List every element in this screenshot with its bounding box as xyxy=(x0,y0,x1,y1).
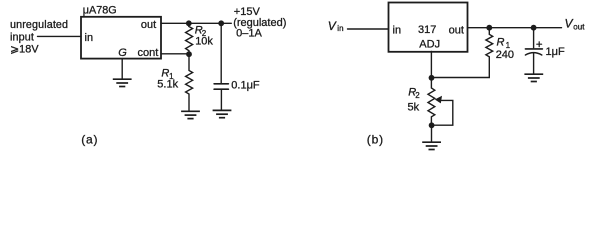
svg-text:cont: cont xyxy=(138,47,159,59)
svg-text:ADJ: ADJ xyxy=(419,39,440,51)
svg-text:in: in xyxy=(85,32,94,44)
svg-text:G: G xyxy=(118,47,127,59)
svg-text:out: out xyxy=(573,23,585,32)
svg-text:2: 2 xyxy=(415,91,420,100)
svg-text:⩾18V: ⩾18V xyxy=(10,44,39,56)
svg-text:out: out xyxy=(141,19,156,31)
svg-text:0–1A: 0–1A xyxy=(236,28,262,40)
svg-text:unregulated: unregulated xyxy=(10,19,68,31)
svg-text:R: R xyxy=(497,37,505,49)
svg-text:10k: 10k xyxy=(195,35,213,47)
svg-text:1μF: 1μF xyxy=(546,46,565,58)
svg-text:317: 317 xyxy=(418,24,436,36)
svg-text:(a): (a) xyxy=(81,133,98,147)
svg-text:in: in xyxy=(337,24,343,33)
svg-text:(b): (b) xyxy=(367,133,384,147)
svg-text:240: 240 xyxy=(496,49,514,61)
svg-text:5.1k: 5.1k xyxy=(157,79,178,91)
svg-text:input: input xyxy=(10,31,34,43)
svg-text:μA78G: μA78G xyxy=(83,4,117,16)
svg-text:0.1μF: 0.1μF xyxy=(231,80,260,92)
svg-text:V: V xyxy=(565,17,574,31)
svg-text:5k: 5k xyxy=(408,102,420,114)
svg-text:out: out xyxy=(449,25,464,37)
svg-text:V: V xyxy=(328,19,337,33)
svg-text:in: in xyxy=(393,25,402,37)
